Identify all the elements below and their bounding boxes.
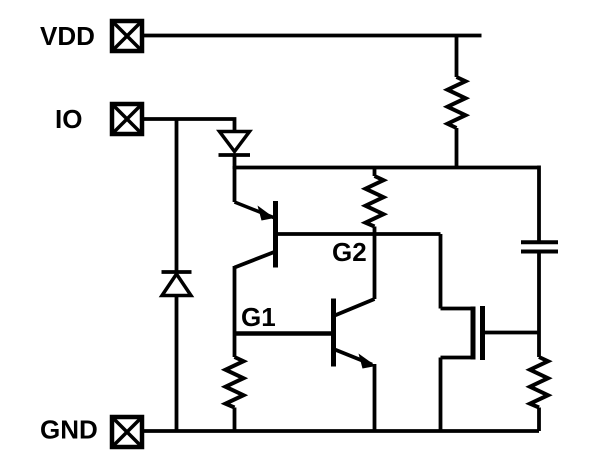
svg-text:IO: IO	[55, 104, 82, 134]
resistor R3	[226, 334, 244, 432]
wire IO	[144, 119, 235, 132]
MOSFET M1	[441, 234, 540, 431]
diode D1 (IO to node, pointing down)	[219, 132, 251, 170]
pad IO	[112, 104, 142, 134]
svg-text:VDD: VDD	[40, 21, 95, 51]
capacitor C1	[521, 242, 558, 251]
wire G1 (Q2 base)	[235, 331, 334, 336]
wire Q1 base (net)	[276, 232, 441, 236]
node line (net N1)	[235, 166, 540, 170]
wire VDD rail	[144, 34, 482, 38]
wire Q1 collector down to G1	[233, 266, 237, 334]
wire GND rail	[144, 429, 539, 433]
resistor R2	[366, 168, 384, 237]
resistor R1	[448, 36, 466, 170]
diode D2 (GND to IO, pointing up)	[162, 272, 192, 296]
wire D2 anode to GND	[175, 296, 179, 432]
pad VDD	[112, 21, 142, 51]
wire Q2 emitter to GND	[373, 364, 377, 431]
resistor R4	[530, 357, 548, 431]
wire IO to diode D2 branch	[175, 119, 179, 272]
svg-text:GND: GND	[40, 415, 98, 445]
svg-text:G2: G2	[332, 237, 367, 267]
wire G2 node down to Q2 collector	[373, 234, 377, 299]
wire node to capacitor	[537, 166, 541, 243]
pad GND	[112, 417, 142, 447]
svg-text:G1: G1	[241, 302, 276, 332]
wire node to Q1 emitter	[233, 166, 237, 202]
transistor Q2 (NPN)	[334, 299, 377, 369]
wire capacitor to gate node	[537, 253, 541, 357]
transistor Q1 (PNP)	[235, 201, 276, 268]
